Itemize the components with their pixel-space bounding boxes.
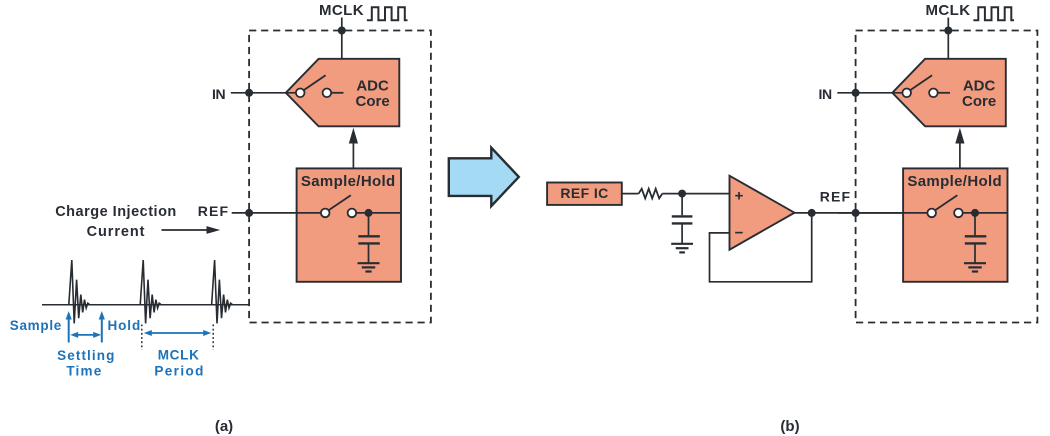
node REF on boundary (a)	[245, 209, 253, 217]
node IN on boundary (b)	[852, 89, 860, 97]
node MCLK on boundary (b)	[944, 27, 952, 35]
switch in sample/hold (b)	[935, 195, 957, 210]
capacitor hold (a)	[368, 213, 370, 235]
wire switch to hold node (b)	[963, 212, 1008, 214]
svg-text:(a): (a)	[215, 418, 233, 435]
clock waveform symbol (a)	[367, 7, 408, 20]
svg-text:Core: Core	[962, 93, 996, 110]
svg-text:−: −	[735, 225, 744, 242]
annotation arrow Hold	[101, 318, 103, 343]
node filter capacitor junction	[678, 190, 686, 198]
svg-text:Hold: Hold	[108, 318, 142, 333]
svg-text:Period: Period	[154, 363, 204, 378]
wire op-amp output REF	[795, 212, 905, 214]
svg-text:Core: Core	[356, 93, 390, 110]
waveform ringing burst 1	[69, 260, 90, 323]
annotation double arrow MCLK Period	[147, 332, 208, 334]
resistor	[639, 189, 663, 199]
arrow sample/hold to ADC core (a)	[352, 140, 354, 168]
wire IN (a)	[231, 92, 296, 94]
node op-amp output	[808, 209, 816, 217]
svg-text:REF: REF	[820, 189, 851, 205]
svg-text:Sample: Sample	[10, 318, 62, 333]
annotation arrow Sample	[68, 318, 70, 343]
node MCLK on boundary (a)	[338, 27, 346, 35]
wire MCLK to ADC core (b)	[947, 18, 949, 59]
ADC core block (a)	[286, 59, 400, 127]
op-amp buffer	[730, 176, 795, 250]
wire switch to hold node (a)	[356, 212, 401, 214]
dotted marker line MCLK period start	[141, 325, 143, 351]
arrow charge injection current direction	[162, 229, 210, 231]
svg-text:Current: Current	[87, 224, 146, 240]
ground in sample/hold (b)	[964, 262, 986, 264]
svg-text:Time: Time	[66, 363, 102, 378]
svg-text:Settling: Settling	[57, 348, 115, 363]
waveform ringing burst 2	[140, 260, 161, 323]
svg-text:MCLK: MCLK	[158, 348, 200, 363]
svg-text:+: +	[735, 188, 744, 205]
annotation double arrow Settling Time	[73, 334, 99, 336]
switch in sample/hold (a)	[329, 195, 351, 210]
switch in ADC core (b)	[910, 75, 932, 90]
clock waveform symbol (b)	[973, 7, 1014, 20]
big blue transition arrow	[449, 148, 519, 206]
dashed ADC boundary box (a)	[249, 31, 431, 323]
svg-text:Sample/Hold: Sample/Hold	[301, 173, 396, 190]
svg-text:REF: REF	[198, 203, 229, 219]
waveform ringing burst 3	[212, 260, 233, 323]
svg-text:(b): (b)	[780, 418, 799, 435]
svg-text:IN: IN	[212, 86, 225, 102]
arrow sample/hold to ADC core (b)	[959, 140, 961, 168]
wire REF into sample/hold (a)	[232, 212, 321, 214]
svg-text:ADC: ADC	[963, 77, 996, 94]
ground filter capacitor	[671, 243, 693, 245]
REF IC block	[547, 183, 622, 205]
node REF on boundary (b)	[852, 209, 860, 217]
waveform charge injection current baseline	[42, 304, 250, 306]
wire IN (b)	[837, 92, 902, 94]
svg-text:REF IC: REF IC	[560, 185, 608, 201]
dotted marker line MCLK period end	[212, 325, 214, 351]
dashed ADC boundary box (b)	[856, 31, 1038, 323]
wire REF into sample/hold (b)	[838, 212, 927, 214]
svg-text:Sample/Hold: Sample/Hold	[907, 173, 1002, 190]
svg-text:Charge Injection: Charge Injection	[55, 204, 177, 220]
ground in sample/hold (a)	[358, 262, 380, 264]
svg-text:ADC: ADC	[356, 77, 389, 94]
wire REF IC to resistor	[622, 193, 639, 195]
wire resistor to op-amp	[662, 193, 729, 195]
svg-text:MCLK: MCLK	[319, 2, 364, 19]
node hold capacitor junction (a)	[365, 209, 373, 217]
sample/hold block (a)	[297, 168, 401, 281]
node hold capacitor junction (b)	[971, 209, 979, 217]
switch in ADC core (a)	[304, 75, 326, 90]
wire feedback loop	[710, 213, 812, 282]
ADC core block (b)	[892, 59, 1006, 127]
capacitor filter	[681, 194, 683, 216]
svg-text:MCLK: MCLK	[926, 2, 971, 19]
node IN on boundary (a)	[245, 89, 253, 97]
sample/hold block (b)	[903, 168, 1007, 281]
wire MCLK to ADC core (a)	[341, 18, 343, 59]
capacitor hold (b)	[974, 213, 976, 235]
svg-text:IN: IN	[819, 86, 832, 102]
